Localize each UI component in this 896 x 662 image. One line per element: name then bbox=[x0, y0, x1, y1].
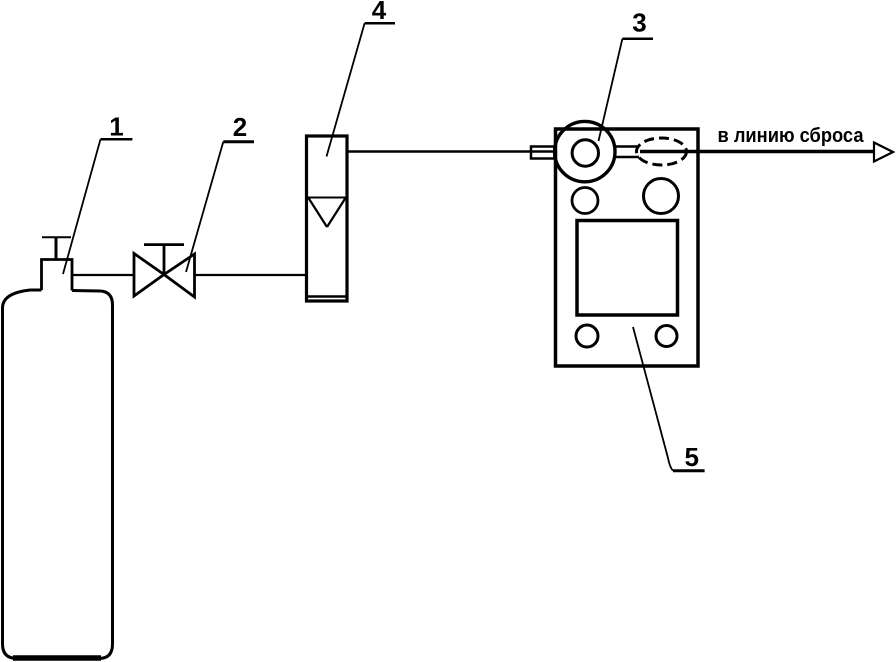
inlet port 3 inner circle bbox=[572, 140, 598, 166]
sensor circle right bbox=[644, 179, 679, 214]
rotameter 4 bottom inner line bbox=[308, 295, 346, 298]
button circle bottom left bbox=[576, 325, 598, 347]
svg-text:1: 1 bbox=[109, 112, 123, 142]
label 4 leader bbox=[327, 23, 365, 156]
cylinder valve stem bbox=[55, 237, 58, 259]
wire pipe cylinder to valve bbox=[72, 274, 134, 276]
gas analyzer 5 body bbox=[556, 129, 699, 366]
valve 2 handle stem bbox=[163, 245, 166, 275]
rotameter 4 body bbox=[307, 136, 348, 301]
svg-text:4: 4 bbox=[372, 0, 387, 25]
label 1 leader bbox=[63, 139, 101, 274]
label 5 shelf bbox=[673, 469, 705, 472]
sensor circle left bbox=[572, 188, 598, 214]
valve 2 handle bar bbox=[144, 243, 184, 246]
label 1 shelf bbox=[101, 138, 133, 141]
gas cylinder 1 neck bbox=[42, 260, 73, 291]
port neck top line bbox=[614, 145, 639, 147]
inlet fitting bbox=[531, 147, 555, 159]
svg-text:3: 3 bbox=[632, 8, 646, 38]
label 3 shelf bbox=[622, 37, 653, 40]
cylinder valve stem bar bbox=[42, 236, 71, 238]
inlet port 3 outer circle bbox=[555, 121, 615, 181]
valve 2 right triangle bbox=[164, 254, 195, 297]
wire pipe rotameter to fitting bbox=[349, 150, 557, 153]
label 2 shelf bbox=[223, 140, 254, 143]
svg-text:5: 5 bbox=[684, 442, 698, 472]
svg-text:2: 2 bbox=[233, 112, 247, 142]
label 4 shelf bbox=[365, 22, 395, 25]
label 2 leader bbox=[186, 142, 223, 272]
dashed ellipse outlet bbox=[637, 138, 687, 165]
wire pipe valve to rotameter bbox=[195, 274, 307, 276]
label 5 leader bbox=[633, 327, 673, 471]
gas cylinder 1 bottom edge bbox=[13, 655, 101, 661]
gas cylinder 1 body bbox=[3, 290, 113, 659]
rotameter 4 float line bbox=[308, 197, 346, 199]
discharge arrowhead bbox=[874, 143, 893, 162]
svg-text:в линию сброса: в линию сброса bbox=[718, 125, 865, 147]
rotameter 4 funnel left bbox=[309, 198, 328, 227]
wire discharge line bbox=[640, 150, 874, 154]
valve 2 left triangle bbox=[134, 254, 164, 297]
rotameter 4 funnel right bbox=[327, 198, 346, 227]
button circle bottom right bbox=[656, 326, 677, 347]
display window bbox=[577, 221, 678, 316]
label 3 leader bbox=[599, 39, 623, 141]
port neck bottom line bbox=[614, 156, 639, 158]
